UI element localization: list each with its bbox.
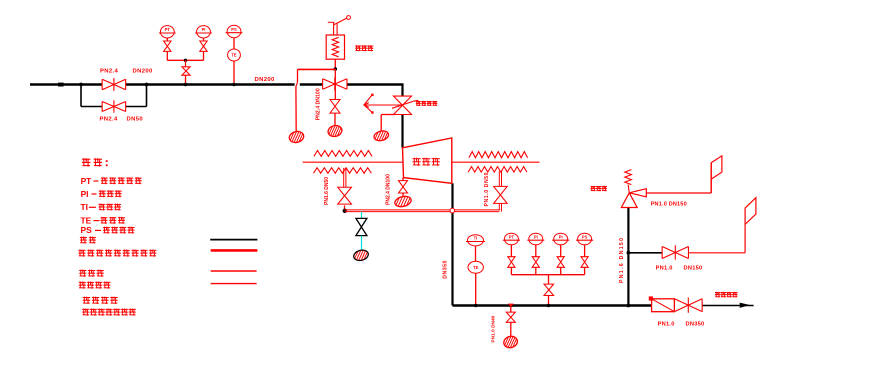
instrument bubble PI #3	[554, 233, 568, 245]
svg-text:TI: TI	[474, 236, 478, 241]
wire main pipe segment before control valve	[300, 83, 323, 85]
valve heat user PN1.0 DN350	[674, 299, 702, 312]
wire gland steam line right	[452, 161, 540, 163]
wire control valve stem	[334, 69, 336, 100]
svg-text:PN1.6 DN150: PN1.6 DN150	[619, 237, 625, 283]
wire PI to valve	[203, 38, 205, 41]
strainer box	[652, 299, 675, 312]
safety valve stem tick	[328, 21, 335, 23]
wire control drain to pot	[334, 113, 336, 126]
wire node to left drain corner	[298, 68, 336, 70]
legend steam row 蒸汽	[80, 237, 87, 244]
node instrument header junction	[184, 59, 187, 62]
wire governing drain drop	[380, 115, 382, 132]
wire instrument header	[167, 59, 203, 61]
safety valve lever	[334, 18, 347, 25]
legend panel inst row 就地仪表柜仪表	[82, 309, 89, 316]
svg-text:PN1.0 DN40: PN1.0 DN40	[490, 315, 496, 342]
svg-text:PI: PI	[559, 234, 563, 239]
wire bypass right riser	[146, 85, 148, 107]
legend title 说明：	[82, 158, 90, 166]
svg-text:PI: PI	[202, 27, 206, 32]
svg-text:PT: PT	[81, 176, 93, 186]
valve left gland drain PN1.6 DN50	[338, 187, 352, 204]
valve bottom drain PN1.0 DN40	[506, 312, 515, 322]
actuator arrow shaft	[364, 104, 403, 106]
valve bubble 3 isolation	[557, 257, 564, 268]
wire turbine exhaust drop	[451, 183, 453, 305]
wire PT valve to header	[166, 51, 168, 60]
node safety valve tee	[334, 67, 338, 71]
svg-text:PI: PI	[534, 234, 538, 239]
svg-text:DN50: DN50	[127, 117, 144, 123]
zigzag right above	[469, 152, 528, 158]
legend mix row 蒸汽、空气混合管路	[78, 250, 85, 257]
wire left drain drop upper	[297, 69, 299, 82]
wire bubble 4 to valve	[584, 245, 586, 257]
instrument TE bubble	[228, 49, 241, 61]
wire TI to TE	[475, 246, 477, 262]
governing valve stem tick	[414, 99, 419, 102]
label 安全阀 right	[591, 186, 596, 191]
legend steam line sample	[210, 239, 257, 241]
svg-text:PN2.4: PN2.4	[100, 68, 118, 74]
wire branch to heater2 valve	[628, 252, 662, 254]
instrument PT bubble	[160, 26, 174, 38]
legend local inst row 就地仪表	[83, 297, 90, 304]
svg-text:PN2.4: PN2.4	[100, 117, 118, 123]
node bypass right junction	[145, 83, 149, 87]
instrument bubble PS #4	[578, 233, 592, 245]
zigzag left above	[314, 151, 372, 157]
valve turbine casing drain	[399, 181, 408, 193]
wire pipe to heat user	[702, 305, 754, 307]
svg-text:DN350: DN350	[686, 321, 705, 327]
wire left gland valve to node	[344, 205, 346, 210]
wire valve 3 to manifold	[560, 267, 562, 274]
zigzag left below	[314, 168, 372, 174]
wire relief outlet	[646, 192, 711, 194]
svg-text:DN200: DN200	[133, 68, 153, 74]
wire turbine drain to pot	[402, 193, 404, 197]
valve cyan drain (black)	[356, 218, 367, 235]
node TE tap bottom pipe	[474, 304, 477, 307]
wire bubble 3 to valve	[560, 245, 562, 257]
legend mix line sample	[211, 249, 258, 252]
valve PT isolation	[164, 41, 171, 51]
instrument TE bubble exhaust	[468, 261, 483, 273]
wire governing valve drain corner	[381, 114, 395, 116]
safety valve spring body	[326, 35, 344, 59]
actuator arrow head	[364, 103, 369, 108]
svg-text:PI: PI	[81, 189, 89, 199]
node header crossing ring	[450, 208, 455, 213]
svg-text:PS: PS	[582, 234, 588, 239]
safety valve lever ball	[347, 16, 351, 20]
node right column bottom junction	[627, 304, 631, 308]
relief valve vertical disc	[621, 193, 637, 208]
safety valve stem	[333, 23, 335, 36]
valve bubble 4 isolation	[581, 257, 588, 268]
svg-text:PN1.0: PN1.0	[656, 266, 673, 272]
svg-text:TE: TE	[231, 53, 237, 58]
wire main steam pipe left segment	[30, 83, 102, 85]
wire turbine drain drop	[402, 178, 404, 181]
valve bubble 1 isolation	[508, 257, 515, 268]
instrument PI bubble	[197, 26, 211, 38]
wire bypass bottom right	[126, 106, 147, 108]
svg-text:PT: PT	[509, 234, 515, 239]
node drain tap bottom pipe	[509, 304, 513, 308]
wire PI valve to header	[203, 51, 205, 60]
svg-text:DN350: DN350	[443, 260, 449, 279]
svg-text:PN2.4 DN100: PN2.4 DN100	[386, 174, 392, 205]
wire drain header upper	[345, 209, 501, 211]
legend drainage row 疏水管路	[79, 282, 86, 289]
wire valve 4 to manifold	[584, 267, 586, 274]
wire bubble 2 to valve	[535, 245, 537, 257]
svg-text:PN1.0: PN1.0	[658, 321, 675, 327]
wire left drain drop lower	[295, 87, 297, 132]
legend water row 水管路	[79, 270, 86, 277]
legend drainage line sample	[211, 283, 257, 285]
wire drain branch lower	[510, 322, 512, 336]
node manifold tap bottom pipe	[547, 304, 551, 308]
label 汽轮机	[413, 158, 421, 166]
svg-text:PS: PS	[81, 225, 93, 235]
wire bypass left riser	[80, 85, 82, 107]
wire valve 1 to manifold	[510, 267, 512, 274]
wire gland steam line left	[303, 161, 403, 163]
label 去热用户	[715, 292, 721, 298]
node PT tap on pipe	[184, 83, 188, 87]
valve PN2.4 DN200 main inlet	[102, 79, 126, 89]
wire left gland drain double line	[343, 168, 345, 187]
node TE tap on pipe	[232, 83, 236, 87]
instrument bubble PT #1	[504, 233, 518, 245]
arrow to heat user	[740, 303, 750, 308]
wire turbine inlet drop upper	[401, 84, 403, 97]
svg-text:PS: PS	[231, 27, 237, 32]
svg-text:PN1.6 DN50: PN1.6 DN50	[324, 177, 330, 205]
actuator barb lower	[364, 105, 372, 112]
wire heater2 valve to riser	[688, 252, 745, 254]
wire PT to valve	[166, 38, 168, 41]
instrument PS bubble	[227, 25, 241, 37]
valve control PN2.4 DN200	[323, 79, 347, 90]
svg-text:PT: PT	[165, 27, 171, 32]
wire main pipe segment after control valve	[347, 83, 403, 85]
drain pot under control valve	[322, 123, 348, 139]
wire left drain jog	[296, 82, 298, 86]
wire TE to bottom pipe	[475, 273, 477, 305]
drain pot under governing valve	[369, 128, 394, 143]
svg-text:DN150: DN150	[684, 266, 703, 272]
wire main pipe mid segment	[126, 83, 295, 85]
svg-text:PN1.0 DN150: PN1.0 DN150	[651, 201, 687, 207]
wire bypass bottom left	[81, 106, 102, 108]
wire safety valve to node	[334, 59, 336, 69]
zigzag right below	[468, 167, 527, 173]
valve PI isolation	[200, 41, 207, 51]
wire instrument manifold	[511, 274, 584, 276]
wire bubble 1 to valve	[510, 245, 512, 257]
actuator barb upper	[364, 95, 372, 105]
wire root valve to pipe	[185, 76, 187, 85]
turbine body 汽轮机	[403, 138, 452, 183]
wire valve 2 to manifold	[535, 267, 537, 274]
svg-text:PN1.0 DN50: PN1.0 DN50	[484, 172, 490, 207]
wire drain branch upper	[510, 306, 512, 313]
governing valve stem diagonal	[392, 101, 414, 108]
drain pot cyan branch	[348, 248, 374, 264]
node gland drain header start	[343, 209, 347, 213]
wire PS to TE	[233, 38, 235, 49]
wire manifold center drop upper	[548, 275, 550, 285]
drain pot under turbine	[389, 194, 417, 210]
relief valve horizontal disc	[629, 189, 646, 197]
label safety valve 安全阀	[355, 45, 361, 51]
wire right column riser	[627, 208, 629, 306]
vent flag 1	[711, 156, 722, 179]
wire TE to pipe	[233, 61, 235, 85]
instrument TI bubble	[468, 235, 484, 246]
wire right gland valve to corner	[498, 203, 500, 210]
valve bubble 2 isolation	[532, 257, 539, 268]
valve control drain	[330, 100, 340, 114]
valve governing (on turbine inlet)	[394, 96, 412, 105]
wire drain header lower	[345, 211, 500, 213]
svg-text:TE: TE	[81, 215, 92, 225]
wire turbine inlet drop lower	[401, 115, 403, 148]
drain pot bottom	[498, 334, 524, 351]
valve heater2 PN1.0 DN150	[662, 247, 688, 259]
label 调节汽阀	[416, 101, 421, 106]
svg-text:TI: TI	[81, 202, 88, 212]
flow arrow on main pipe	[58, 83, 64, 87]
wire relief vent riser	[710, 163, 712, 193]
wire bottom heater pipe	[453, 304, 629, 306]
svg-text:DN200: DN200	[255, 77, 275, 83]
wire header to root valve	[185, 60, 187, 66]
instrument bubble PI #2	[529, 233, 543, 245]
wire heater2 vent riser	[744, 224, 746, 252]
vent flag 2	[745, 198, 756, 225]
wire pipe to strainer	[628, 304, 651, 306]
node bypass left junction	[79, 83, 83, 87]
relief valve spring	[625, 170, 632, 185]
wire manifold root to pipe	[548, 296, 550, 306]
svg-text:PN2.4 DN100: PN2.4 DN100	[316, 88, 322, 120]
wire right gland drain double line	[498, 171, 500, 186]
legend water line sample	[211, 270, 257, 272]
wire cyan drain upper	[361, 212, 363, 219]
valve instrument root	[182, 67, 190, 75]
valve right gland drain PN1.0 DN50	[494, 186, 508, 203]
svg-text:TE: TE	[473, 265, 479, 270]
valve manifold root	[544, 284, 554, 295]
node right column branch junction	[627, 251, 631, 255]
valve PN2.4 DN50 bypass	[102, 102, 126, 112]
wire cyan drain lower	[361, 236, 363, 251]
drain pot left of control valve	[283, 129, 310, 145]
